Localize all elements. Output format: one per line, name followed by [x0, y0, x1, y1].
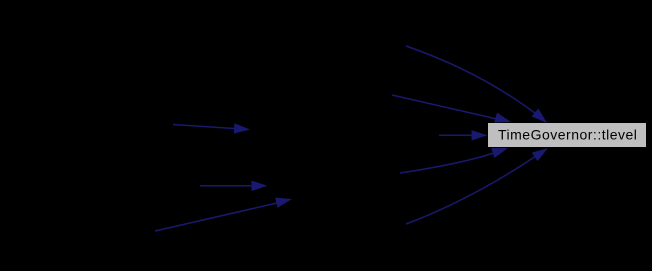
- edge E2: line from hidden node into top-left of TimeGovernor::tlevel: [392, 95, 511, 123]
- edge L3: caller arrow into hidden node (lower left, diagonal): [155, 198, 292, 231]
- edge E3: horizontal arrow from hidden node into left side of TimeGovernor::tlevel: [439, 130, 488, 140]
- edge E1: curve from hidden node into top of TimeGovernor::tlevel: [406, 46, 547, 123]
- edge L2: caller arrow into hidden node (mid left, horizontal): [200, 181, 268, 191]
- svg-text:TimeGovernor::tlevel: TimeGovernor::tlevel: [498, 127, 637, 143]
- node TimeGovernor::tlevel (highlighted current function): [488, 123, 646, 147]
- edge E5: curve from hidden node into bottom of TimeGovernor::tlevel: [406, 148, 548, 224]
- edge L1: caller arrow into hidden node (upper left): [173, 123, 250, 133]
- edge E4: curve from hidden node into bottom-left of TimeGovernor::tlevel: [400, 148, 508, 173]
